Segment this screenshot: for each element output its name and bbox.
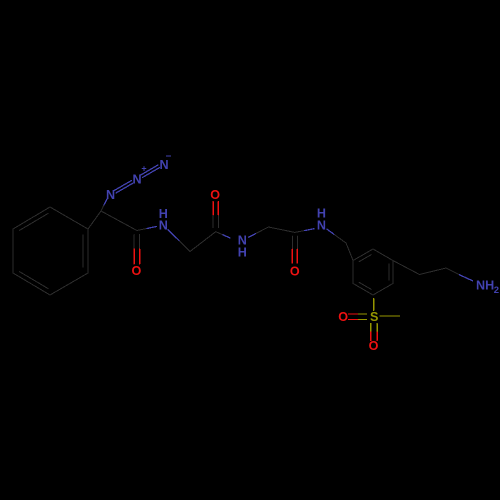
svg-text:O: O (338, 310, 348, 324)
svg-text:H: H (238, 246, 247, 260)
svg-text:S: S (370, 310, 378, 324)
svg-text:O: O (369, 339, 379, 353)
svg-text:N: N (106, 188, 115, 202)
svg-text:NH: NH (476, 279, 494, 293)
svg-text:N: N (159, 158, 168, 172)
svg-text:2: 2 (494, 285, 499, 296)
svg-text:O: O (132, 264, 142, 278)
svg-text:O: O (290, 264, 300, 278)
svg-text:N: N (317, 219, 326, 233)
svg-text:N: N (132, 173, 141, 187)
svg-text:N: N (159, 219, 168, 233)
svg-text:+: + (141, 164, 146, 174)
svg-text:O: O (210, 188, 220, 202)
